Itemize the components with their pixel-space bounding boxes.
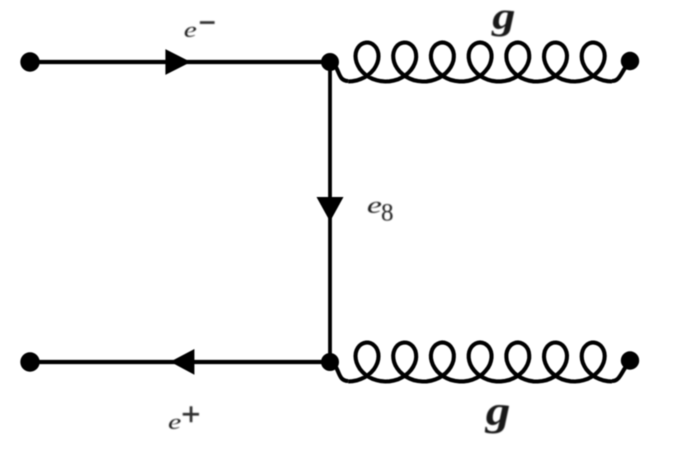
svg-text:g: g <box>491 0 515 38</box>
svg-text:e: e <box>168 410 182 434</box>
svg-text:e: e <box>367 193 382 219</box>
svg-text:e: e <box>184 17 197 42</box>
svg-text:g: g <box>485 388 511 433</box>
svg-text:8: 8 <box>381 200 394 227</box>
